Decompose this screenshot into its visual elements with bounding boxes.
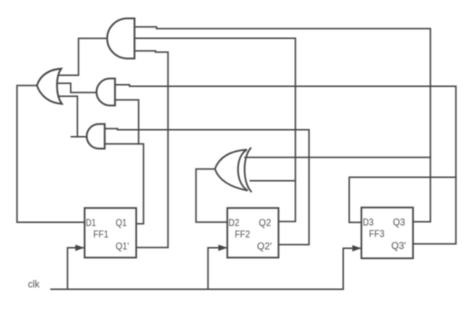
svg-text:D3: D3 [363,217,374,228]
xor gate G5 (2-input, faces left) [215,148,251,191]
clock arrowhead into FF2 [218,245,227,251]
svg-text:Q3': Q3' [391,241,406,252]
flip-flop FF1 box [85,208,137,258]
svg-text:D1: D1 [86,218,97,229]
wire net Q2 feedback to G1 middle input and XOR bottom input [136,38,295,221]
wire net Q2' feedback to G3 top input [105,129,309,245]
wire clk riser to FF2 [208,248,226,289]
wire net Q1' feedback to G1 bottom input [136,51,168,248]
svg-text:Q2': Q2' [257,242,272,253]
wire net Q3' feedback to G2 top input and D3 [115,85,456,244]
and gate G2 (2-input, faces left) [97,79,115,106]
wire net G2 output to OR1 middle input [58,83,97,92]
clock arrowhead into FF3 [352,245,361,251]
svg-text:Q1: Q1 [116,218,128,229]
svg-text:FF1: FF1 [93,230,109,241]
svg-text:Q3: Q3 [393,217,406,228]
wire net G3 output to OR1 bottom input [59,96,87,137]
svg-text:Q1': Q1' [116,242,129,253]
or gate OR1 (3-input, faces left) [37,69,62,104]
wire net OR1 output to D1 [17,86,85,223]
and gate G3 (2-input, faces left) [87,124,105,149]
wire clk riser to FF1 [68,248,84,289]
wire net Q1 feedback to G2 and G3 bottom inputs [105,100,144,224]
wire net G1 output to OR1 top input [59,38,106,75]
svg-text:clk: clk [28,280,40,291]
wire net Q3 feedback to G1 top input and XOR top input [136,27,430,222]
svg-text:FF3: FF3 [369,229,385,240]
flip-flop FF3 box [361,208,413,259]
flip-flop FF2 box [227,208,278,258]
wire clk distribution line [51,288,343,290]
wire clk riser to FF3 [343,248,360,289]
and gate G1 (3-input, faces left) [107,18,134,58]
clock arrowhead into FF1 [75,245,84,251]
svg-text:FF2: FF2 [235,230,250,241]
svg-text:D2: D2 [229,218,240,229]
wire net XOR output to D2 [196,169,227,222]
svg-text:Q2: Q2 [259,218,271,229]
